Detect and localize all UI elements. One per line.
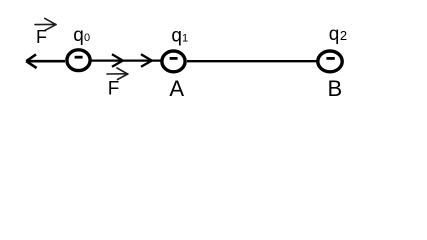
wire q0 to q1 [92,59,162,61]
charge q0 [67,50,90,71]
charge q1 [162,51,185,72]
force arrowhead 1 on wire [112,54,123,67]
svg-text:F: F [36,27,47,47]
label q2 [329,24,347,45]
svg-text:q: q [171,26,182,47]
charge q2 [318,51,342,72]
label q0 [73,25,90,46]
svg-text:A: A [169,76,184,101]
svg-text:1: 1 [182,33,188,45]
svg-text:B: B [328,76,343,101]
svg-text:q: q [73,25,84,46]
minus sign of q2 [326,57,334,60]
force vector arrow over F (middle) [107,68,128,80]
minus sign of q1 [170,57,178,60]
svg-text:0: 0 [84,32,90,44]
minus sign of q0 [75,56,83,59]
force arrowhead 2 on wire [141,54,152,67]
wire q1 to q2 [187,60,317,62]
svg-text:2: 2 [340,28,347,43]
svg-text:q: q [329,24,340,45]
label q1 [171,26,188,47]
svg-text:F: F [108,79,120,100]
force vector arrow over F (top-left) [35,18,56,30]
force arrow on q0 pointing left [26,54,65,68]
